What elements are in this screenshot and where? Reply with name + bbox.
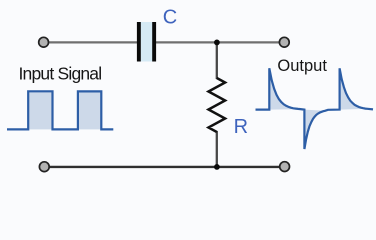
terminal input top <box>39 37 49 47</box>
output waveform fill spike 1 <box>269 68 300 109</box>
wire top rail <box>46 41 281 43</box>
svg-text:C: C <box>163 7 177 29</box>
output waveform fill negative spike <box>304 110 325 149</box>
output waveform trace <box>256 68 374 149</box>
output waveform fill spike 2 <box>340 68 368 109</box>
wire resistor top segment <box>216 42 218 79</box>
terminal input bottom <box>39 162 49 172</box>
terminal output bottom <box>280 162 290 172</box>
terminal output top <box>279 37 289 47</box>
input square-wave fill pulse 1 <box>28 91 52 129</box>
svg-text:Input Signal: Input Signal <box>19 63 102 83</box>
node junction bottom <box>214 164 220 170</box>
capacitor C1 left plate <box>137 22 141 62</box>
wire resistor bottom segment <box>216 131 218 167</box>
resistor R1 zigzag <box>209 78 226 132</box>
node junction top <box>214 40 220 46</box>
wire bottom rail <box>47 166 282 168</box>
capacitor C1 right plate <box>152 22 156 62</box>
capacitor C1 dielectric fill <box>141 22 153 62</box>
input square-wave trace <box>7 91 113 129</box>
svg-text:Output: Output <box>277 57 327 75</box>
svg-text:R: R <box>234 116 248 138</box>
input square-wave fill pulse 2 <box>78 91 101 129</box>
